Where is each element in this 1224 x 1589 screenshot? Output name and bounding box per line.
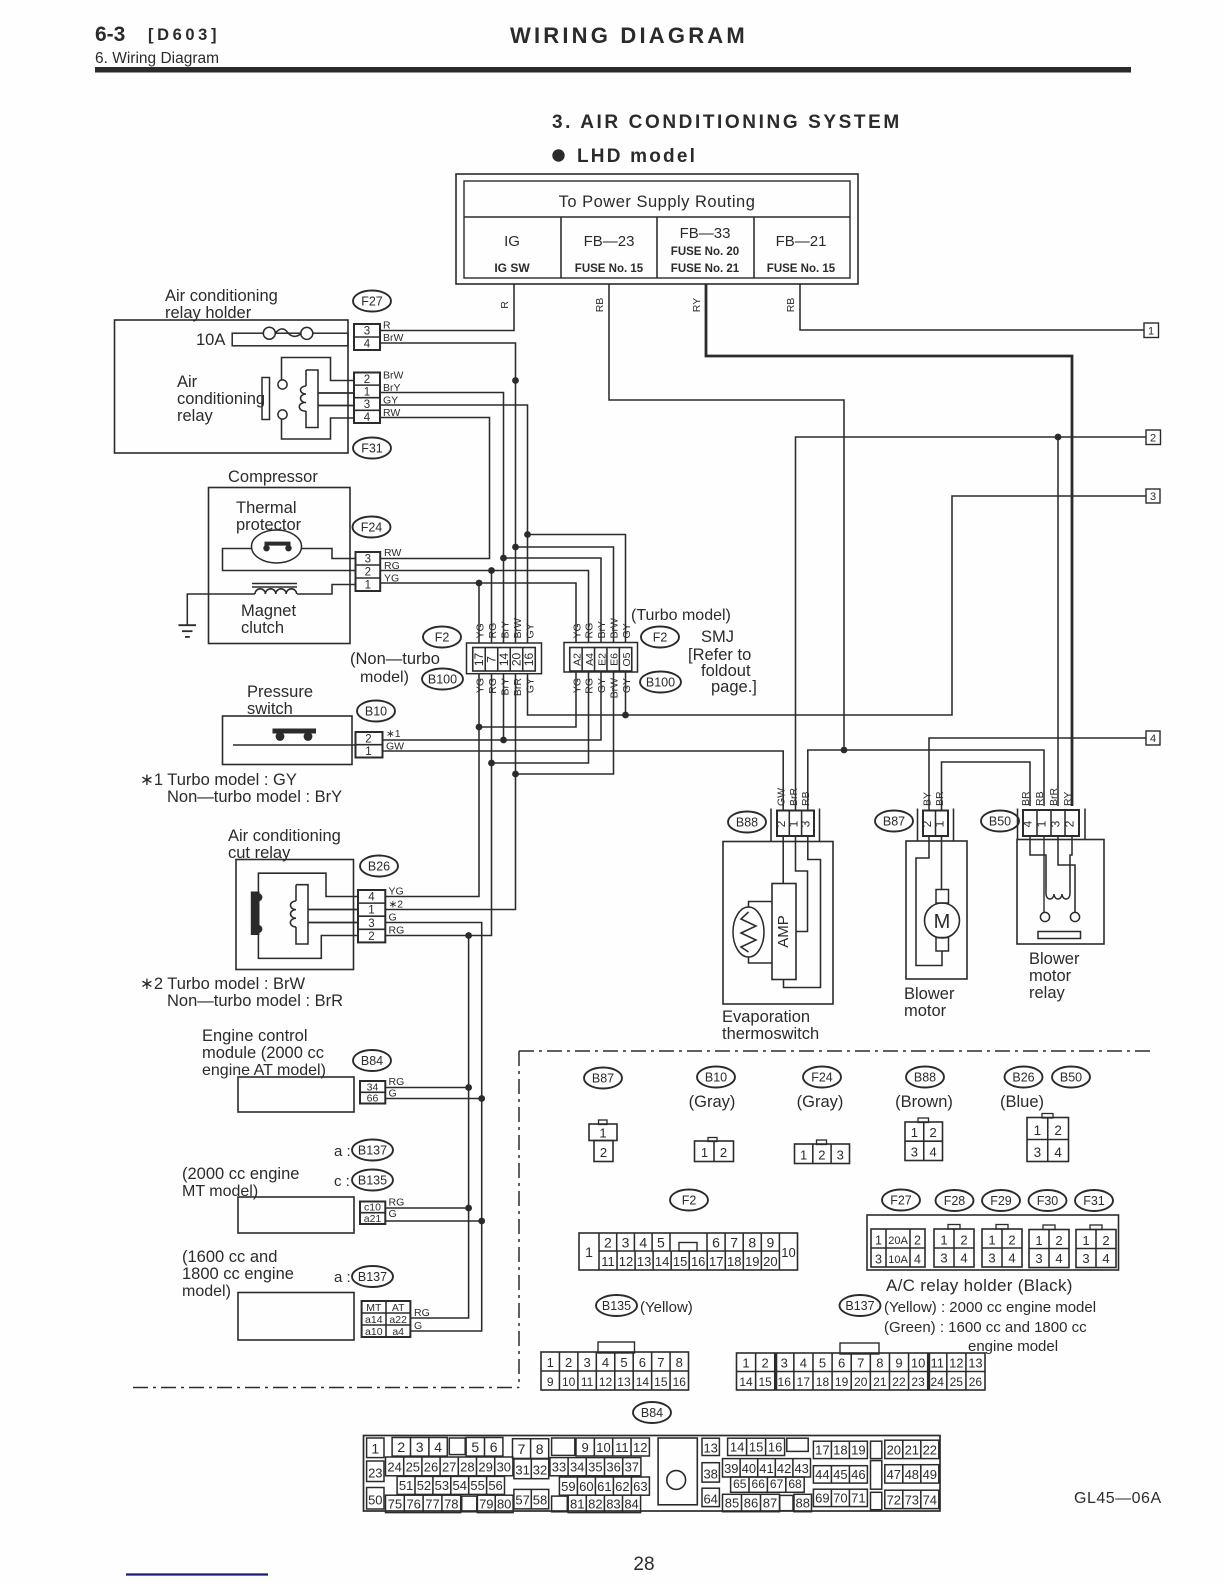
svg-text:RB: RB — [800, 791, 812, 806]
svg-text:B87: B87 — [883, 814, 905, 828]
wire RG from B84 pin 34 — [385, 1087, 468, 1089]
connector oval F2 turbo — [641, 627, 679, 648]
svg-text:79: 79 — [479, 1496, 493, 1511]
svg-text:motor: motor — [904, 1002, 947, 1020]
connector B10 pin block pins 2 1 — [356, 732, 383, 758]
connector oval B84 (diagram) — [633, 1402, 671, 1423]
bullet LHD model — [552, 146, 697, 167]
svg-text:3: 3 — [368, 918, 374, 930]
svg-text:17: 17 — [815, 1442, 829, 1457]
relay wire coil to pin 3 — [318, 405, 354, 407]
svg-text:29: 29 — [478, 1460, 492, 1475]
svg-text:B26: B26 — [368, 859, 390, 873]
thermal protector label — [236, 499, 302, 534]
svg-text:76: 76 — [406, 1496, 420, 1511]
svg-text:2: 2 — [929, 1125, 936, 1140]
fuse 10A — [196, 327, 348, 349]
pressure switch internal line — [233, 744, 356, 746]
svg-text:(Non—turbo: (Non—turbo — [350, 650, 440, 668]
svg-text:70: 70 — [833, 1490, 847, 1505]
air conditioning relay armature — [262, 378, 270, 420]
svg-text:10A: 10A — [196, 331, 225, 349]
svg-text:12: 12 — [633, 1440, 647, 1455]
svg-text:G: G — [389, 912, 397, 924]
svg-text:F2: F2 — [682, 1193, 697, 1207]
magnet clutch lead to F24 pin 1 — [297, 585, 356, 595]
svg-text:18: 18 — [816, 1375, 830, 1389]
svg-text:3: 3 — [416, 1439, 424, 1455]
svg-text:3. AIR CONDITIONING SYSTEM: 3. AIR CONDITIONING SYSTEM — [552, 112, 902, 133]
svg-text:72: 72 — [887, 1492, 901, 1507]
svg-text:86: 86 — [744, 1496, 758, 1511]
connector pin block c10 a21 — [360, 1202, 385, 1225]
relay contact lower — [278, 410, 287, 419]
svg-text:BrY: BrY — [596, 621, 608, 639]
svg-text:Non—turbo model : BrY: Non—turbo model : BrY — [167, 788, 342, 806]
air conditioning cut relay label — [228, 827, 341, 862]
wire RG non-turbo SMJ down to cut relay pin 2 — [385, 674, 491, 936]
svg-text:G: G — [414, 1320, 422, 1332]
relay wire pin4 loop to lower contact — [282, 418, 355, 439]
off-page connector box 1 — [1144, 323, 1159, 338]
svg-text:10: 10 — [781, 1245, 795, 1260]
wire G from a21 — [385, 1220, 481, 1222]
svg-text:3: 3 — [875, 1253, 882, 1267]
svg-text:2: 2 — [1150, 433, 1156, 445]
svg-text:54: 54 — [453, 1478, 467, 1493]
wire GY non-turbo SMJ to box 3 — [528, 496, 1147, 715]
wire BrW from F27 pin 4 to SMJ BrW — [380, 343, 516, 643]
svg-text:17: 17 — [797, 1375, 811, 1389]
svg-text:B50: B50 — [989, 814, 1011, 828]
svg-text:LHD model: LHD model — [577, 146, 697, 167]
cut relay contact dots — [254, 893, 262, 933]
svg-text:BR: BR — [1020, 791, 1032, 806]
svg-text:2: 2 — [1054, 1123, 1062, 1138]
connector oval F31 — [353, 438, 391, 459]
power supply routing box — [456, 174, 858, 284]
blower motor label — [904, 985, 955, 1020]
svg-text:2: 2 — [565, 1355, 572, 1370]
connector B84 pin block pins 34 66 — [360, 1081, 385, 1105]
svg-text:(Blue): (Blue) — [1000, 1093, 1044, 1111]
svg-text:E6: E6 — [609, 653, 621, 666]
svg-text:F28: F28 — [944, 1194, 966, 1208]
svg-text:37: 37 — [625, 1460, 639, 1475]
svg-text:7: 7 — [857, 1356, 864, 1371]
dash-dot border top — [519, 1050, 1150, 1052]
svg-text:1: 1 — [364, 387, 370, 399]
thermal protector symbol — [252, 530, 302, 563]
svg-text:Evaporation: Evaporation — [722, 1008, 810, 1026]
connector diagram F31 — [1076, 1225, 1116, 1268]
power source FB-23 / FUSE No. 15 — [575, 233, 644, 275]
svg-text:F31: F31 — [361, 441, 383, 455]
wire YG non-turbo SMJ down to cut relay pin 4 — [385, 674, 479, 897]
svg-text:2: 2 — [364, 374, 370, 386]
svg-text:(Brown): (Brown) — [895, 1093, 953, 1111]
connector oval B10 (diagram) — [697, 1067, 735, 1088]
svg-text:13: 13 — [637, 1254, 651, 1269]
dash-dot border left — [518, 1051, 520, 1388]
junction dot BrR at B50 branch — [1055, 434, 1062, 441]
svg-text:Air conditioning: Air conditioning — [165, 287, 278, 305]
svg-text:1: 1 — [911, 1125, 918, 1140]
cut relay armature (filled) — [251, 892, 260, 936]
connector oval F24 (diagram) — [803, 1067, 841, 1088]
cut relay wire pin4 loop to upper contact — [258, 873, 358, 896]
svg-text:22: 22 — [892, 1375, 906, 1389]
connector oval F28 (diagram) — [936, 1190, 974, 1211]
junction dot BrY to turbo SMJ branch — [500, 555, 507, 562]
svg-text:61: 61 — [597, 1479, 611, 1494]
svg-text:(Gray): (Gray) — [689, 1093, 736, 1111]
svg-text:2: 2 — [604, 1235, 612, 1251]
svg-text:2: 2 — [365, 733, 371, 745]
wire B88 pin 3 to AMP bottom — [784, 836, 821, 988]
wire BR from B87 pin 1 to B50 pin 4 — [942, 762, 1031, 811]
connector oval B87 (diagram) — [584, 1068, 622, 1089]
connector diagram B135 16-pin — [541, 1342, 689, 1390]
svg-text:RY: RY — [691, 298, 703, 312]
svg-text:66: 66 — [367, 1093, 379, 1105]
label c: B135 for MT model — [334, 1170, 393, 1191]
connector diagram B88 1-4 — [905, 1118, 943, 1161]
relay wire coil to pin 1 — [318, 392, 354, 394]
blower motor relay bar — [1038, 932, 1081, 939]
svg-text:IG SW: IG SW — [494, 261, 530, 275]
svg-text:77: 77 — [425, 1496, 439, 1511]
power source IG / IG SW — [494, 233, 530, 275]
cut relay box — [236, 860, 354, 970]
svg-text:c10: c10 — [364, 1202, 381, 1214]
svg-text:model): model) — [182, 1283, 231, 1300]
svg-text:53: 53 — [435, 1478, 449, 1493]
ECM 1600/1800 label — [182, 1248, 294, 1300]
svg-text:74: 74 — [923, 1492, 937, 1507]
svg-text:4: 4 — [434, 1439, 442, 1455]
svg-text:20A: 20A — [888, 1235, 908, 1247]
svg-text:RW: RW — [384, 547, 401, 559]
svg-text:RB: RB — [785, 298, 797, 313]
svg-text:4: 4 — [368, 892, 375, 904]
junction dot BrR jumper — [512, 771, 519, 778]
svg-text:Air conditioning: Air conditioning — [228, 827, 341, 845]
svg-text:2: 2 — [960, 1233, 967, 1248]
connector oval F24 — [353, 517, 391, 538]
svg-text:page.]: page.] — [711, 678, 757, 696]
svg-text:73: 73 — [905, 1492, 919, 1507]
svg-text:1: 1 — [585, 1244, 593, 1260]
svg-text:42: 42 — [777, 1461, 791, 1476]
svg-text:AT: AT — [392, 1302, 405, 1314]
svg-text:17: 17 — [709, 1254, 723, 1269]
svg-text:6: 6 — [490, 1439, 498, 1455]
junction dot RG at cut relay wire — [465, 932, 472, 939]
svg-text:11: 11 — [601, 1254, 615, 1269]
svg-text:14: 14 — [655, 1254, 669, 1269]
svg-text:F24: F24 — [361, 520, 383, 534]
svg-text:1: 1 — [368, 905, 374, 917]
labels BR RB BrR RY above B50 — [1020, 788, 1074, 807]
svg-text:20: 20 — [887, 1442, 901, 1457]
svg-text:a22: a22 — [389, 1314, 407, 1326]
pressure switch label — [247, 683, 313, 718]
svg-text:RG: RG — [584, 678, 596, 694]
svg-text:21: 21 — [905, 1442, 919, 1457]
svg-text:B100: B100 — [646, 675, 675, 689]
svg-text:BrY: BrY — [499, 678, 511, 696]
svg-text:RB: RB — [594, 298, 606, 313]
svg-text:2: 2 — [762, 1356, 769, 1371]
svg-text:motor: motor — [1029, 967, 1072, 985]
connector oval B100 non-turbo — [422, 669, 463, 690]
svg-text:(Green) : 1600 cc and 1800 cc: (Green) : 1600 cc and 1800 cc — [884, 1319, 1087, 1336]
svg-text:B87: B87 — [592, 1071, 614, 1085]
off-page connector box 3 — [1146, 489, 1160, 503]
svg-text:Non—turbo model : BrR: Non—turbo model : BrR — [167, 992, 343, 1010]
svg-text:relay: relay — [1029, 984, 1066, 1002]
svg-text:11: 11 — [930, 1356, 944, 1371]
svg-text:80: 80 — [497, 1496, 511, 1511]
junction dot RB at B88/B50 link — [841, 747, 848, 754]
svg-text:20: 20 — [854, 1375, 868, 1389]
svg-text:1: 1 — [371, 1441, 379, 1457]
junction dot G at ECM MT — [478, 1218, 485, 1225]
svg-text:O5: O5 — [621, 652, 633, 666]
relay contact upper — [278, 380, 287, 389]
svg-text:27: 27 — [442, 1460, 456, 1475]
svg-text:9: 9 — [547, 1375, 554, 1389]
svg-text:64: 64 — [703, 1491, 717, 1506]
svg-text:thermoswitch: thermoswitch — [722, 1025, 819, 1043]
svg-text:3: 3 — [940, 1251, 947, 1266]
svg-text:16: 16 — [691, 1254, 705, 1269]
svg-text:52: 52 — [417, 1478, 431, 1493]
wire GW from pressure switch to B88 pin 2 — [383, 751, 784, 811]
labels GW BrR RB above B88 — [776, 788, 813, 807]
connector diagram B87 1-2 — [589, 1120, 617, 1162]
svg-text:F27: F27 — [361, 294, 383, 308]
svg-text:BrW: BrW — [383, 332, 404, 344]
wire G from B26 pin 3 down to ECM G net — [385, 923, 481, 1332]
svg-text:5: 5 — [819, 1356, 826, 1371]
svg-text:conditioning: conditioning — [177, 390, 265, 408]
svg-text:23: 23 — [911, 1375, 925, 1389]
svg-text:RB: RB — [1034, 791, 1046, 806]
svg-text:10: 10 — [596, 1440, 610, 1455]
svg-text:11: 11 — [581, 1375, 594, 1389]
svg-text:15: 15 — [673, 1254, 687, 1269]
svg-text:1: 1 — [875, 1234, 882, 1248]
engine control module label — [202, 1027, 326, 1079]
svg-text:(2000 cc engine: (2000 cc engine — [182, 1165, 299, 1183]
connector B26 pin block pins 4 1 3 2 — [358, 890, 385, 943]
connector oval B10 — [357, 701, 395, 722]
svg-text:B100: B100 — [428, 672, 457, 686]
connector oval B100 turbo — [640, 672, 681, 693]
wire YG from F24 pin 1 to SMJ YG — [380, 583, 576, 643]
connector oval B84 — [353, 1050, 391, 1071]
wire R from IG to relay holder pin 3 — [380, 284, 514, 331]
connector oval F27 (diagram) — [882, 1190, 920, 1211]
svg-text:7: 7 — [730, 1235, 738, 1251]
svg-text:model): model) — [360, 669, 409, 686]
ECM MT model box — [238, 1197, 354, 1233]
svg-text:45: 45 — [833, 1467, 847, 1482]
off-page connector box 2 — [1146, 430, 1161, 445]
svg-text:5: 5 — [657, 1235, 665, 1251]
svg-text:3: 3 — [1150, 491, 1156, 503]
svg-text:50: 50 — [368, 1492, 382, 1507]
connector pin table MT AT a14 a22 a10 a4 — [362, 1301, 411, 1338]
labels YG RG BrY BrW GY above turbo SMJ — [571, 618, 633, 639]
svg-text:6: 6 — [639, 1355, 646, 1370]
svg-text:YG: YG — [571, 623, 583, 638]
wire BrR non-turbo SMJ down to cut relay pin 1 — [385, 674, 515, 910]
svg-text:9: 9 — [582, 1440, 589, 1455]
svg-text:RG: RG — [389, 1076, 405, 1088]
svg-text:20: 20 — [763, 1254, 777, 1269]
connector B50 pin block pins 4 1 3 2 — [1018, 809, 1086, 840]
svg-text:63: 63 — [633, 1479, 647, 1494]
svg-text:F29: F29 — [990, 1194, 1012, 1208]
svg-text:GY: GY — [524, 623, 536, 638]
svg-text:2: 2 — [368, 931, 374, 943]
connector oval B26 — [360, 856, 398, 877]
svg-text:R: R — [383, 320, 391, 332]
wire RG jumper to turbo SMJ — [492, 672, 589, 763]
svg-text:22: 22 — [923, 1442, 937, 1457]
junction dot BrY at pressure switch wire — [500, 737, 507, 744]
svg-text:83: 83 — [606, 1496, 620, 1511]
svg-text:SMJ: SMJ — [701, 628, 734, 646]
connector diagram F30 — [1029, 1225, 1069, 1268]
svg-text:23: 23 — [368, 1465, 382, 1480]
svg-text:78: 78 — [444, 1496, 458, 1511]
svg-text:YG: YG — [389, 886, 404, 898]
svg-text:4: 4 — [1008, 1251, 1015, 1266]
svg-text:M: M — [934, 911, 951, 933]
svg-text:FUSE No. 20: FUSE No. 20 — [671, 246, 739, 258]
svg-text:2: 2 — [1063, 820, 1077, 827]
svg-text:57: 57 — [515, 1493, 529, 1508]
wire BrW branch to turbo SMJ — [516, 547, 614, 643]
svg-text:1: 1 — [1148, 326, 1154, 338]
svg-text:1: 1 — [365, 580, 371, 592]
svg-text:GY: GY — [596, 678, 608, 693]
svg-text:8: 8 — [676, 1355, 683, 1370]
blower motor box — [906, 841, 967, 979]
thermal protector lead to F24 pin 2 — [223, 549, 356, 571]
svg-text:B135: B135 — [358, 1173, 387, 1187]
svg-text:Blower: Blower — [1029, 950, 1080, 968]
svg-text:18: 18 — [727, 1254, 741, 1269]
wire RG from c10 — [385, 1207, 468, 1209]
svg-text:55: 55 — [470, 1478, 484, 1493]
svg-text:RY: RY — [1062, 792, 1074, 806]
svg-text:E2: E2 — [596, 653, 608, 666]
connector diagram F27 fuse block — [871, 1229, 925, 1267]
svg-text:14: 14 — [739, 1375, 753, 1389]
svg-text:3: 3 — [837, 1148, 844, 1163]
svg-text:[D603]: [D603] — [148, 26, 220, 44]
connector F31 pin block pins 2 1 3 4 — [354, 373, 380, 424]
connector oval B50 — [981, 811, 1019, 832]
SMJ non-turbo connector block pins 17 7 14 20 16 — [467, 643, 542, 674]
svg-text:6: 6 — [838, 1356, 845, 1371]
svg-text:RG: RG — [487, 623, 499, 639]
svg-text:BY: BY — [922, 792, 934, 806]
pressure switch box — [223, 716, 353, 765]
svg-text:47: 47 — [887, 1467, 901, 1482]
svg-text:10A: 10A — [888, 1254, 908, 1266]
svg-text:2: 2 — [1055, 1233, 1062, 1248]
svg-text:G: G — [389, 1208, 397, 1220]
wire BrR branch down to B50 pin 3 — [1057, 437, 1059, 806]
svg-text:65: 65 — [733, 1477, 747, 1491]
junction dot BrW at relay coil feed — [512, 377, 519, 384]
magnet clutch coil — [252, 584, 297, 595]
svg-text:13: 13 — [703, 1440, 717, 1455]
svg-text:75: 75 — [388, 1496, 402, 1511]
svg-text:33: 33 — [552, 1460, 566, 1475]
svg-text:16: 16 — [778, 1375, 792, 1389]
svg-text:44: 44 — [815, 1467, 829, 1482]
svg-text:48: 48 — [905, 1467, 919, 1482]
svg-text:4: 4 — [960, 1251, 967, 1266]
wire BrY non-turbo SMJ down to pressure switch line — [503, 674, 505, 740]
svg-text:15: 15 — [749, 1439, 763, 1454]
wire GY from F31 pin 3 to SMJ GY — [380, 405, 528, 643]
labels YG RG BrY BrR GY below non-turbo SMJ — [474, 678, 536, 697]
svg-text:3: 3 — [1049, 820, 1063, 827]
svg-text:12: 12 — [949, 1356, 963, 1371]
svg-text:13: 13 — [617, 1375, 631, 1389]
wire RW from F31 pin 4 to compressor pin 3 — [380, 418, 490, 559]
wire B87 pin 1 to motor top — [941, 836, 943, 890]
svg-text:B137: B137 — [358, 1143, 387, 1157]
compressor box — [209, 488, 351, 644]
svg-text:GL45—06A: GL45—06A — [1074, 1490, 1162, 1507]
svg-text:16: 16 — [673, 1375, 687, 1389]
svg-text:FB—33: FB—33 — [680, 225, 731, 242]
svg-text:4: 4 — [364, 339, 371, 351]
svg-text:B10: B10 — [365, 704, 387, 718]
svg-text:(Yellow): (Yellow) — [640, 1299, 693, 1316]
svg-text:RG: RG — [414, 1307, 430, 1319]
svg-text:FUSE No. 21: FUSE No. 21 — [671, 263, 740, 275]
svg-text:GY: GY — [621, 678, 633, 693]
svg-text:24: 24 — [931, 1375, 945, 1389]
svg-text:71: 71 — [851, 1490, 865, 1505]
wire BrY from F31 pin 1 to SMJ BrY — [380, 393, 504, 644]
svg-text:1: 1 — [701, 1145, 708, 1160]
connector F24 pin block pins 3 2 1 — [356, 552, 381, 592]
svg-text:F24: F24 — [811, 1070, 833, 1084]
connector diagram B84 88-pin — [364, 1436, 941, 1513]
svg-text:BrR: BrR — [512, 678, 524, 697]
svg-text:1: 1 — [547, 1355, 554, 1370]
svg-text:88: 88 — [796, 1496, 810, 1511]
svg-text:∗1: ∗1 — [386, 728, 401, 740]
svg-text:9: 9 — [766, 1235, 774, 1251]
svg-text:1: 1 — [933, 820, 947, 827]
blower motor relay box — [1017, 840, 1104, 945]
svg-text:14: 14 — [730, 1439, 744, 1454]
thermoswitch AMP box — [772, 884, 796, 980]
connector B87 pin block pins 2 1 — [918, 809, 954, 842]
